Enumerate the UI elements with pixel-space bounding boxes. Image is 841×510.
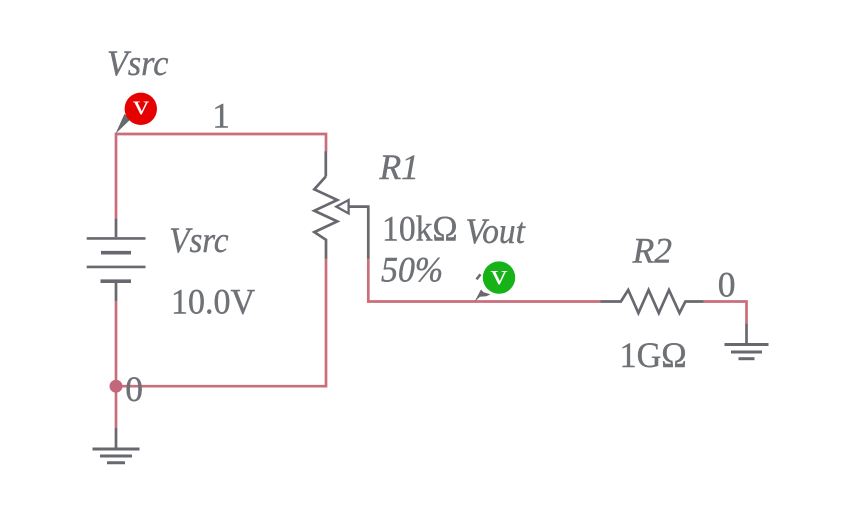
svg-text:1: 1	[212, 96, 230, 136]
svg-text:0: 0	[125, 369, 143, 409]
svg-text:1GΩ: 1GΩ	[620, 335, 687, 375]
svg-text:10.0V: 10.0V	[171, 282, 255, 322]
svg-text:50%: 50%	[381, 250, 443, 290]
svg-text:Vsrc: Vsrc	[107, 43, 169, 83]
svg-text:0: 0	[718, 265, 736, 305]
svg-text:Vsrc: Vsrc	[169, 220, 229, 260]
svg-text:R2: R2	[632, 231, 672, 271]
svg-text:Vout: Vout	[466, 211, 526, 251]
svg-text:v: v	[133, 90, 150, 120]
svg-text:10kΩ: 10kΩ	[382, 209, 458, 249]
svg-text:R1: R1	[379, 147, 419, 187]
svg-text:v: v	[491, 259, 508, 291]
